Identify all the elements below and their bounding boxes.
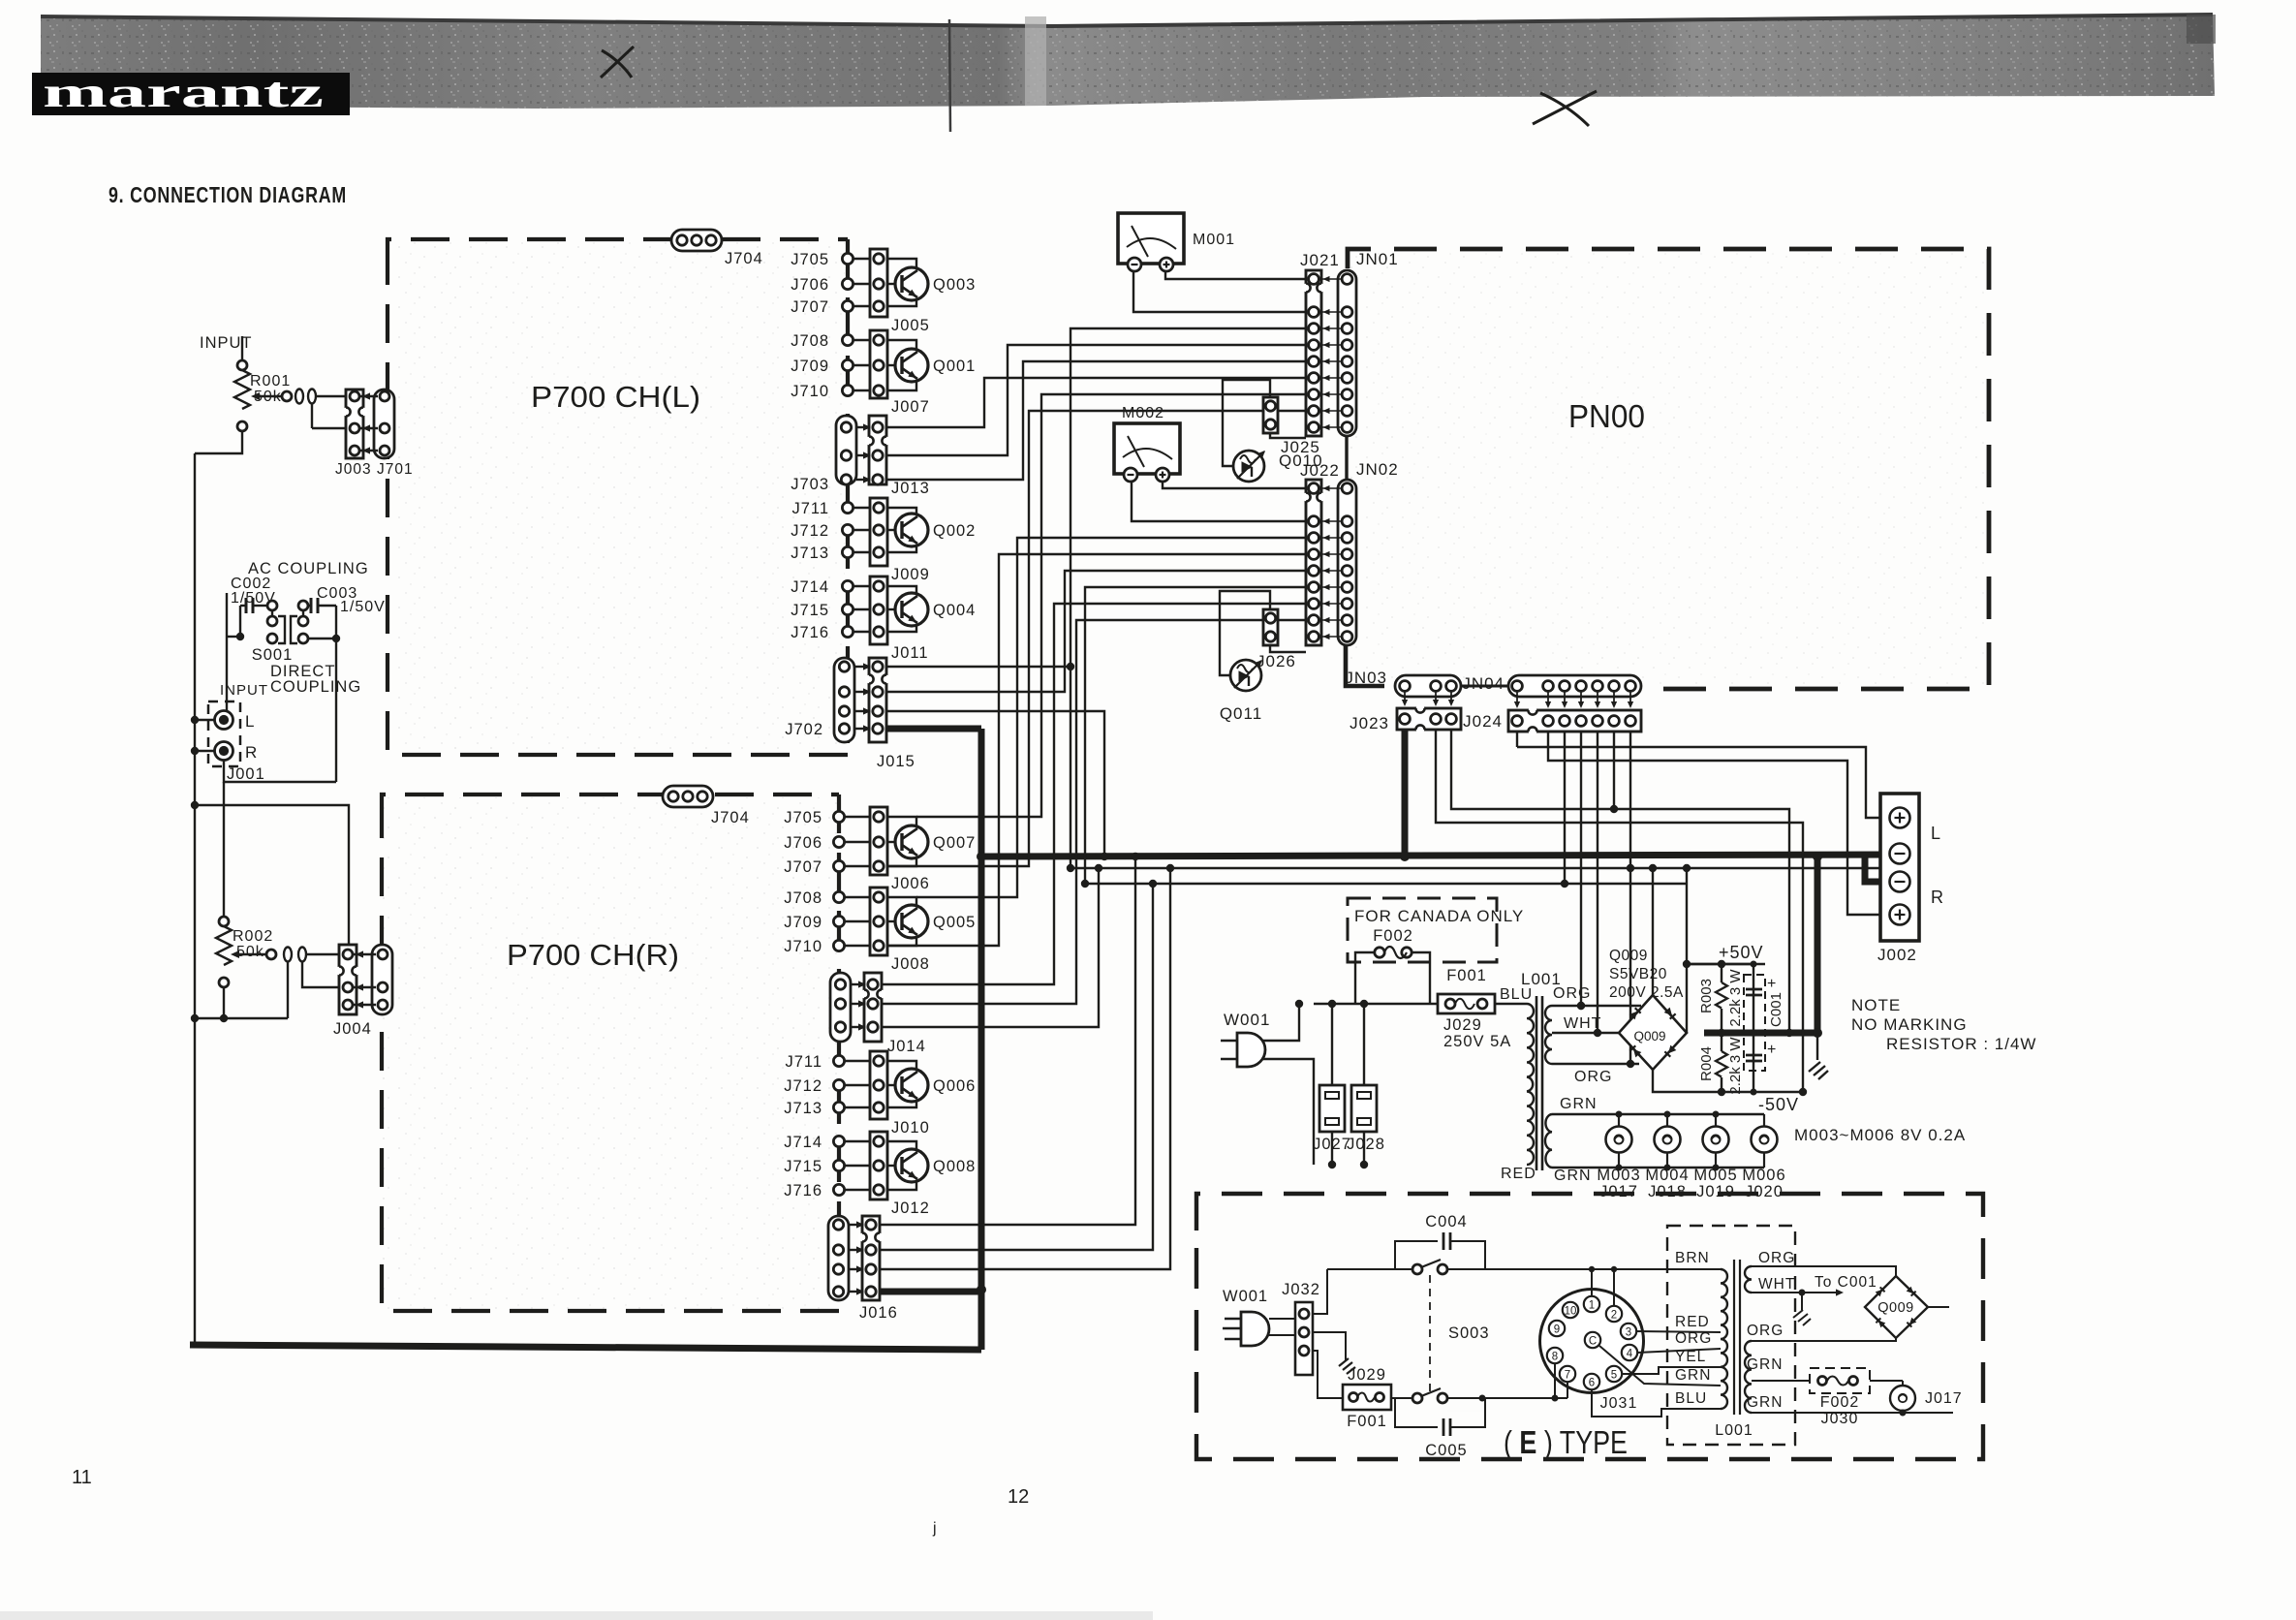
svg-text:F001: F001	[1347, 1413, 1387, 1430]
svg-text:F002: F002	[1820, 1394, 1859, 1411]
svg-text:+50V: +50V	[1719, 943, 1764, 962]
svg-text:R001: R001	[250, 373, 291, 389]
svg-text:ORG: ORG	[1747, 1323, 1784, 1339]
svg-text:M003~M006 8V 0.2A: M003~M006 8V 0.2A	[1794, 1126, 1966, 1144]
svg-text:R003: R003	[1698, 979, 1715, 1013]
svg-text:R004: R004	[1698, 1046, 1715, 1081]
svg-text:j: j	[932, 1520, 937, 1537]
svg-text:J017: J017	[1599, 1183, 1638, 1200]
svg-text:J709: J709	[784, 914, 822, 931]
svg-text:-50V: -50V	[1758, 1095, 1799, 1114]
svg-text:J024: J024	[1463, 712, 1503, 731]
svg-text:J031: J031	[1600, 1395, 1638, 1412]
svg-text:J714: J714	[784, 1134, 822, 1151]
svg-text:J014: J014	[887, 1038, 926, 1055]
svg-text:Q009: Q009	[1609, 948, 1648, 964]
svg-text:J706: J706	[791, 276, 829, 294]
svg-text:M005: M005	[1693, 1167, 1737, 1184]
svg-text:J716: J716	[791, 624, 829, 641]
svg-text:J032: J032	[1282, 1281, 1320, 1298]
svg-text:WHT: WHT	[1564, 1015, 1601, 1032]
svg-text:RESISTOR : 1/4W: RESISTOR : 1/4W	[1886, 1035, 2036, 1053]
svg-text:J709: J709	[791, 358, 829, 375]
svg-text:J712: J712	[784, 1077, 822, 1095]
svg-text:J027: J027	[1313, 1136, 1351, 1153]
svg-text:1/50V: 1/50V	[340, 599, 386, 615]
svg-text:J005: J005	[891, 317, 930, 334]
svg-text:9. CONNECTION DIAGRAM: 9. CONNECTION DIAGRAM	[109, 182, 347, 207]
svg-text:S5VB20: S5VB20	[1609, 966, 1667, 982]
svg-text:J701: J701	[377, 461, 414, 478]
svg-text:GRN: GRN	[1675, 1367, 1711, 1384]
svg-text:J714: J714	[791, 578, 829, 596]
svg-text:J705: J705	[791, 251, 829, 268]
svg-text:J715: J715	[784, 1158, 822, 1175]
svg-text:JN02: JN02	[1356, 460, 1399, 479]
svg-text:Q010: Q010	[1279, 452, 1323, 470]
svg-text:COUPLING: COUPLING	[270, 678, 361, 696]
svg-text:P700 CH(R): P700 CH(R)	[507, 938, 679, 972]
svg-text:R002: R002	[233, 928, 273, 945]
svg-text:M001: M001	[1193, 232, 1235, 248]
svg-text:J712: J712	[791, 522, 829, 540]
svg-text:Q009: Q009	[1877, 1300, 1913, 1316]
svg-text:J710: J710	[791, 383, 829, 400]
svg-text:To C001: To C001	[1815, 1274, 1877, 1291]
svg-text:S001: S001	[252, 646, 294, 664]
svg-text:7: 7	[1565, 1370, 1570, 1382]
svg-text:BLU: BLU	[1500, 986, 1533, 1003]
svg-text:4: 4	[1627, 1349, 1633, 1360]
svg-text:M003: M003	[1597, 1167, 1640, 1184]
svg-text:ORG: ORG	[1574, 1069, 1612, 1085]
svg-text:2.2k 3 W: 2.2k 3 W	[1727, 1037, 1744, 1095]
svg-text:J711: J711	[785, 1053, 822, 1071]
svg-text:J001: J001	[227, 765, 265, 783]
svg-text:J016: J016	[859, 1304, 898, 1322]
svg-text:BRN: BRN	[1675, 1250, 1710, 1266]
svg-text:J029: J029	[1348, 1366, 1386, 1384]
svg-text:W001: W001	[1224, 1011, 1270, 1029]
svg-text:M004: M004	[1645, 1167, 1689, 1184]
svg-text:Q005: Q005	[933, 914, 976, 931]
svg-text:ORG: ORG	[1553, 985, 1591, 1002]
svg-text:Q006: Q006	[933, 1077, 976, 1095]
svg-text:marantz: marantz	[43, 69, 324, 116]
svg-text:8: 8	[1552, 1352, 1558, 1363]
svg-text:J707: J707	[784, 858, 822, 876]
svg-text:Q009: Q009	[1633, 1029, 1665, 1044]
svg-text:Q001: Q001	[933, 358, 976, 375]
svg-text:2: 2	[1611, 1310, 1617, 1322]
svg-text:J703: J703	[791, 476, 829, 493]
svg-text:J715: J715	[791, 602, 829, 619]
svg-text:Q002: Q002	[933, 522, 976, 540]
svg-text:J713: J713	[791, 545, 829, 562]
svg-text:J012: J012	[891, 1199, 930, 1217]
svg-text:10: 10	[1565, 1306, 1577, 1318]
svg-text:J017: J017	[1925, 1390, 1963, 1407]
svg-text:J020: J020	[1745, 1183, 1784, 1200]
svg-text:Q007: Q007	[933, 834, 976, 852]
svg-text:GRN: GRN	[1747, 1394, 1783, 1411]
svg-text:J015: J015	[877, 753, 915, 770]
svg-text:5: 5	[1611, 1370, 1617, 1382]
svg-text:FOR CANADA ONLY: FOR CANADA ONLY	[1354, 907, 1524, 925]
svg-text:J713: J713	[784, 1100, 822, 1117]
svg-text:WHT: WHT	[1758, 1276, 1795, 1293]
svg-text:J704: J704	[725, 250, 763, 267]
svg-text:J028: J028	[1347, 1136, 1385, 1153]
svg-text:200V 2.5A: 200V 2.5A	[1609, 984, 1684, 1001]
svg-text:JN01: JN01	[1356, 250, 1399, 268]
svg-text:2.2k 3 W: 2.2k 3 W	[1727, 969, 1744, 1027]
svg-text:J716: J716	[784, 1182, 822, 1199]
svg-text:12: 12	[1008, 1486, 1029, 1508]
svg-text:C004: C004	[1425, 1213, 1467, 1231]
svg-text:Q008: Q008	[933, 1158, 976, 1175]
svg-text:P700 CH(L): P700 CH(L)	[531, 380, 700, 414]
svg-text:J006: J006	[891, 875, 930, 892]
svg-text:J711: J711	[791, 500, 829, 517]
svg-text:3: 3	[1626, 1327, 1631, 1339]
svg-text:J010: J010	[891, 1119, 930, 1137]
svg-text:M006: M006	[1742, 1167, 1785, 1184]
svg-text:+: +	[1767, 976, 1777, 992]
svg-text:NO MARKING: NO MARKING	[1851, 1015, 1968, 1034]
svg-text:L001: L001	[1715, 1422, 1753, 1439]
svg-text:J705: J705	[784, 809, 822, 826]
svg-text:ORG: ORG	[1758, 1250, 1795, 1266]
svg-text:1: 1	[1589, 1300, 1595, 1312]
svg-text:J004: J004	[333, 1020, 372, 1038]
svg-text:J003: J003	[335, 461, 372, 478]
svg-text:INPUT: INPUT	[200, 334, 253, 352]
svg-text:( E ) TYPE: ( E ) TYPE	[1504, 1424, 1628, 1460]
svg-text:9: 9	[1554, 1324, 1560, 1336]
svg-text:J704: J704	[711, 809, 750, 826]
svg-text:C001: C001	[1768, 992, 1784, 1027]
svg-text:R: R	[1931, 888, 1944, 907]
svg-text:F002: F002	[1373, 927, 1413, 945]
svg-text:J708: J708	[784, 889, 822, 907]
svg-text:J708: J708	[791, 332, 829, 350]
svg-text:J018: J018	[1648, 1183, 1687, 1200]
svg-text:J707: J707	[791, 298, 829, 316]
svg-text:GRN: GRN	[1747, 1356, 1783, 1373]
svg-text:L: L	[245, 712, 255, 731]
svg-text:J002: J002	[1877, 946, 1917, 964]
svg-text:J021: J021	[1300, 251, 1340, 269]
svg-text:Q011: Q011	[1220, 704, 1262, 723]
svg-text:J008: J008	[891, 955, 930, 973]
svg-text:J011: J011	[891, 644, 929, 662]
svg-text:J009: J009	[891, 566, 930, 583]
svg-text:ORG: ORG	[1675, 1330, 1712, 1347]
svg-text:Q003: Q003	[933, 276, 976, 294]
svg-text:W001: W001	[1223, 1288, 1268, 1305]
svg-text:L: L	[1931, 824, 1941, 843]
svg-text:250V 5A: 250V 5A	[1443, 1033, 1511, 1050]
svg-text:PN00: PN00	[1568, 398, 1645, 434]
svg-text:J710: J710	[784, 938, 822, 955]
svg-text:J706: J706	[784, 834, 822, 852]
svg-text:C005: C005	[1425, 1442, 1467, 1459]
svg-text:J023: J023	[1350, 714, 1389, 732]
svg-text:RED: RED	[1675, 1314, 1710, 1330]
svg-text:RED: RED	[1501, 1166, 1536, 1182]
svg-text:JN04: JN04	[1462, 674, 1505, 693]
svg-text:Q004: Q004	[933, 602, 976, 619]
svg-text:J013: J013	[891, 480, 930, 497]
svg-text:R: R	[245, 743, 258, 762]
svg-text:J026: J026	[1257, 652, 1296, 670]
svg-text:11: 11	[72, 1467, 92, 1488]
svg-text:+: +	[1767, 1042, 1777, 1058]
svg-text:C: C	[1589, 1336, 1597, 1348]
svg-text:J019: J019	[1696, 1183, 1735, 1200]
svg-text:BLU: BLU	[1675, 1390, 1707, 1407]
svg-text:NOTE: NOTE	[1851, 996, 1901, 1014]
svg-text:M002: M002	[1122, 405, 1164, 421]
svg-text:6: 6	[1589, 1378, 1595, 1389]
svg-text:J702: J702	[785, 721, 823, 738]
svg-text:GRN: GRN	[1554, 1168, 1592, 1184]
svg-text:50k: 50k	[236, 944, 264, 960]
svg-text:F001: F001	[1446, 967, 1487, 984]
svg-text:GRN: GRN	[1560, 1096, 1598, 1112]
svg-text:S003: S003	[1448, 1324, 1490, 1342]
svg-text:J029: J029	[1443, 1016, 1482, 1034]
svg-text:YEL: YEL	[1675, 1349, 1706, 1365]
svg-text:JN03: JN03	[1345, 669, 1387, 687]
svg-text:J007: J007	[891, 398, 930, 416]
